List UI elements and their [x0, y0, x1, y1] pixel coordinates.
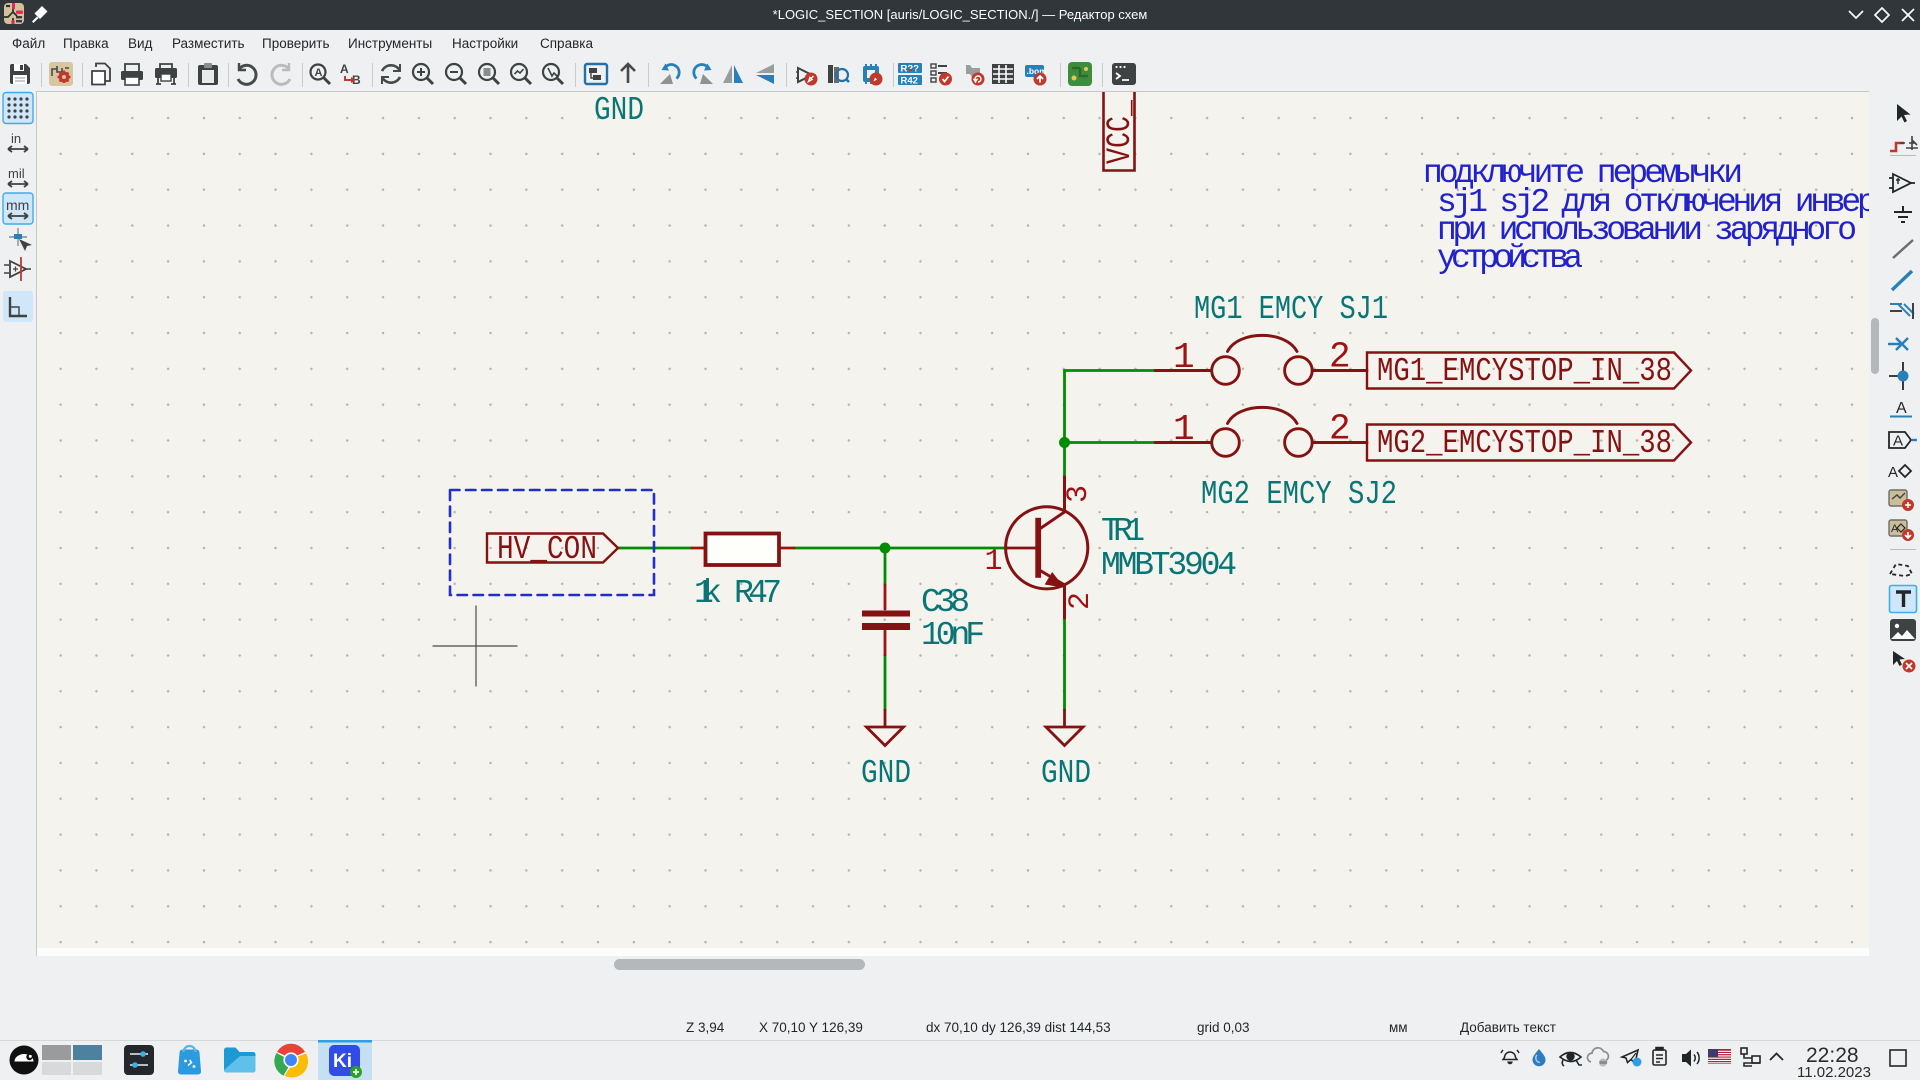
resistor value/ref "1k R47": [694, 575, 782, 612]
canvas edge lines: [36, 91, 37, 956]
transistor fields TR1 / MMBT3904: [1101, 513, 1237, 584]
svg-text:1k: 1k: [694, 575, 722, 612]
svg-text:11.02.2023: 11.02.2023: [1797, 1064, 1871, 1080]
power symbol text GND (top, partially scrolled): [594, 92, 644, 129]
svg-text:A: A: [340, 62, 349, 76]
crosshair cursor: [433, 606, 517, 686]
svg-text:1: 1: [1173, 409, 1195, 450]
transistor TR1 pin numbers 1,3,2: [985, 485, 1099, 610]
svg-text:Ki: Ki: [333, 1051, 352, 1072]
menu bar: [0, 30, 1920, 58]
schematic canvas: [36, 91, 1869, 948]
horizontal scrollbar: [36, 956, 1869, 975]
ground text GND (emitter): [1041, 755, 1091, 792]
ground symbol under emitter: [1046, 710, 1083, 746]
svg-text:2: 2: [1329, 409, 1351, 450]
svg-text:TR1: TR1: [1101, 513, 1145, 550]
label MG2 EMCY SJ2: [1201, 476, 1397, 513]
status bar: [0, 975, 1920, 1040]
vertical scrollbar: [1869, 91, 1881, 956]
svg-text:2: 2: [1064, 592, 1098, 610]
resistor R47: [692, 534, 794, 566]
svg-text:mm: mm: [6, 197, 29, 213]
hierarchical label MG2_EMCYSTOP_IN_38: [1367, 425, 1691, 463]
junction at collector branch: [1059, 437, 1070, 448]
svg-text:VCC_: VCC_: [1102, 100, 1140, 164]
wire resistor to transistor base: [794, 547, 1007, 550]
junction at resistor-capacitor node: [880, 543, 891, 554]
svg-text:GND: GND: [1041, 755, 1091, 792]
capacitor C38: [862, 585, 910, 655]
svg-text:A: A: [1893, 433, 1903, 450]
svg-text:mil: mil: [8, 166, 25, 181]
wire emitter to ground: [1063, 618, 1066, 710]
ground symbol under capacitor: [867, 710, 904, 746]
svg-text:A: A: [1896, 400, 1907, 417]
window title bar: [0, 0, 1920, 30]
jumper SJ2: [1155, 407, 1367, 456]
svg-text:1: 1: [1173, 337, 1195, 378]
dashed selection box around HV_CON: [450, 490, 654, 595]
label MG1 EMCY SJ1: [1194, 291, 1388, 328]
jumper SJ2 pin numbers: [1173, 409, 1351, 451]
svg-text:MG2_EMCYSTOP_IN_38: MG2_EMCYSTOP_IN_38: [1377, 425, 1672, 462]
svg-text:MG2 EMCY SJ2: MG2 EMCY SJ2: [1201, 476, 1397, 513]
svg-text:MG1 EMCY SJ1: MG1 EMCY SJ1: [1194, 291, 1388, 328]
transistor TR1: [1006, 477, 1088, 618]
note text (blue, Russian): [1423, 155, 1920, 277]
svg-text:MG1_EMCYSTOP_IN_38: MG1_EMCYSTOP_IN_38: [1377, 353, 1672, 390]
svg-text:MMBT3904: MMBT3904: [1101, 547, 1237, 584]
wire capacitor to ground: [884, 655, 887, 710]
svg-text:10nF: 10nF: [921, 617, 985, 654]
right tool palette: [1881, 91, 1920, 975]
svg-text:2: 2: [1329, 337, 1351, 378]
svg-text:1: 1: [985, 545, 1003, 579]
desktop taskbar: [0, 1040, 1920, 1080]
hierarchical label MG1_EMCYSTOP_IN_38: [1367, 353, 1691, 391]
wire collector up and branches to jumpers: [1065, 371, 1156, 478]
svg-text:A: A: [1888, 464, 1898, 481]
main toolbar: [0, 58, 1920, 91]
jumper SJ1: [1155, 335, 1367, 384]
svg-text:in: in: [11, 131, 21, 146]
jumper SJ1 pin numbers: [1173, 337, 1351, 379]
svg-text:GND: GND: [594, 92, 644, 129]
svg-text:3: 3: [1062, 485, 1096, 503]
left option toolbar: [0, 91, 36, 975]
hierarchical label HV_CON: [487, 531, 618, 568]
svg-text:устройства: устройства: [1437, 240, 1583, 277]
wire HV_CON to resistor: [618, 547, 692, 550]
svg-text:C38: C38: [921, 584, 970, 621]
svg-text:GND: GND: [861, 755, 911, 792]
ground text GND (capacitor): [861, 755, 911, 792]
capacitor fields C38 / 10nF: [921, 584, 985, 654]
svg-text:A: A: [315, 67, 323, 79]
svg-text:R47: R47: [734, 575, 782, 612]
wire junction down to capacitor: [884, 548, 887, 585]
global label VCC_ (vertical, clipped at top): [1102, 86, 1140, 171]
svg-text:R42: R42: [901, 76, 918, 87]
svg-text:HV_CON: HV_CON: [497, 531, 597, 568]
